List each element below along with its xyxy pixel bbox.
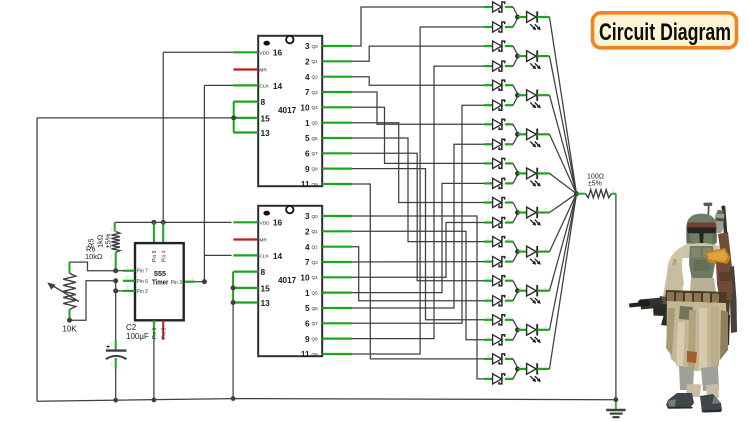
svg-text:Q9: Q9 <box>312 352 319 357</box>
svg-text:2: 2 <box>508 120 510 124</box>
svg-text:1: 1 <box>519 51 521 55</box>
svg-text:2: 2 <box>545 130 547 134</box>
svg-text:Pin 2: Pin 2 <box>137 289 149 295</box>
svg-text:Pin 8: Pin 8 <box>152 250 158 262</box>
svg-text:2: 2 <box>545 286 547 290</box>
svg-text:10kΩ: 10kΩ <box>85 252 103 261</box>
svg-text:2: 2 <box>508 140 510 144</box>
svg-text:6: 6 <box>127 276 129 280</box>
svg-text:16: 16 <box>273 218 283 228</box>
svg-text:1: 1 <box>487 100 489 104</box>
svg-text:5: 5 <box>305 134 310 143</box>
svg-text:6: 6 <box>305 150 310 159</box>
svg-text:+: + <box>106 344 110 351</box>
svg-text:2: 2 <box>612 189 614 193</box>
svg-text:Q2: Q2 <box>312 245 319 250</box>
svg-text:Pin 1: Pin 1 <box>152 327 158 339</box>
svg-text:14: 14 <box>273 81 283 91</box>
svg-text:1: 1 <box>519 286 521 290</box>
svg-text:1: 1 <box>65 264 67 268</box>
svg-text:1: 1 <box>519 247 521 251</box>
svg-text:2: 2 <box>508 41 510 45</box>
svg-text:7: 7 <box>127 266 129 270</box>
svg-text:1: 1 <box>487 218 489 222</box>
svg-text:MR: MR <box>259 238 267 244</box>
svg-text:1: 1 <box>487 41 489 45</box>
svg-text:4: 4 <box>305 243 310 252</box>
svg-text:1: 1 <box>305 119 310 128</box>
svg-text:Q1: Q1 <box>312 229 319 234</box>
svg-text:Q9: Q9 <box>312 182 319 187</box>
svg-text:100Ω: 100Ω <box>587 173 604 180</box>
svg-text:1: 1 <box>111 343 113 347</box>
svg-text:2: 2 <box>508 218 510 222</box>
svg-text:1: 1 <box>487 257 489 261</box>
svg-text:Q5: Q5 <box>312 121 319 126</box>
svg-text:2: 2 <box>508 179 510 183</box>
svg-text:1: 1 <box>519 208 521 212</box>
svg-text:2: 2 <box>508 198 510 202</box>
svg-text:Q6: Q6 <box>312 306 319 311</box>
svg-text:CLK: CLK <box>259 84 269 90</box>
svg-text:9: 9 <box>305 165 310 174</box>
svg-text:1: 1 <box>487 2 489 6</box>
svg-text:2: 2 <box>305 228 310 237</box>
svg-text:Q5: Q5 <box>312 290 319 295</box>
svg-text:15: 15 <box>261 283 271 293</box>
svg-text:14: 14 <box>273 251 283 261</box>
svg-text:Q4: Q4 <box>312 105 319 110</box>
svg-text:2: 2 <box>508 80 510 84</box>
svg-text:4017: 4017 <box>278 106 297 115</box>
svg-text:7: 7 <box>305 258 310 267</box>
svg-text:13: 13 <box>261 128 271 138</box>
svg-text:1: 1 <box>519 90 521 94</box>
svg-text:2: 2 <box>111 362 113 366</box>
svg-text:±5%: ±5% <box>104 233 113 248</box>
svg-text:1: 1 <box>487 159 489 163</box>
svg-text:1: 1 <box>519 169 521 173</box>
svg-text:Pin 5: Pin 5 <box>161 327 167 339</box>
svg-text:Q7: Q7 <box>312 321 319 326</box>
svg-text:10: 10 <box>300 104 310 113</box>
svg-text:1: 1 <box>580 189 582 193</box>
svg-text:Pin 3: Pin 3 <box>171 280 183 286</box>
svg-text:10: 10 <box>300 274 310 283</box>
svg-text:11: 11 <box>301 350 310 359</box>
svg-text:1: 1 <box>487 140 489 144</box>
svg-text:2: 2 <box>508 100 510 104</box>
svg-text:4017: 4017 <box>278 276 297 285</box>
svg-text:10K: 10K <box>62 325 77 334</box>
svg-text:Timer: Timer <box>152 277 169 286</box>
svg-text:2: 2 <box>545 208 547 212</box>
svg-text:VDD: VDD <box>259 51 270 57</box>
svg-text:9: 9 <box>305 335 310 344</box>
svg-text:Q7: Q7 <box>312 151 319 156</box>
svg-text:Q4: Q4 <box>312 275 319 280</box>
svg-text:Pin 7: Pin 7 <box>137 269 149 275</box>
svg-text:Q3: Q3 <box>312 260 319 265</box>
svg-text:Pin 4: Pin 4 <box>161 250 167 262</box>
svg-text:2: 2 <box>508 315 510 319</box>
svg-text:2: 2 <box>545 51 547 55</box>
svg-text:11: 11 <box>301 180 310 189</box>
svg-text:2: 2 <box>508 335 510 339</box>
svg-text:2: 2 <box>508 159 510 163</box>
svg-text:2: 2 <box>508 237 510 241</box>
svg-text:2: 2 <box>65 315 67 319</box>
svg-text:1: 1 <box>519 130 521 134</box>
svg-text:1: 1 <box>487 374 489 378</box>
svg-text:1: 1 <box>487 276 489 280</box>
svg-text:VDD: VDD <box>259 221 270 227</box>
svg-text:6: 6 <box>305 320 310 329</box>
svg-text:CLK: CLK <box>259 254 269 260</box>
svg-text:Q0: Q0 <box>312 44 319 49</box>
svg-text:Circuit Diagram: Circuit Diagram <box>599 19 731 46</box>
svg-text:2: 2 <box>508 61 510 65</box>
svg-text:2: 2 <box>111 255 113 259</box>
svg-text:MR: MR <box>259 68 267 74</box>
svg-text:100µF: 100µF <box>126 332 149 341</box>
svg-text:5: 5 <box>305 304 310 313</box>
svg-text:1: 1 <box>519 364 521 368</box>
svg-text:1: 1 <box>487 237 489 241</box>
svg-text:C2: C2 <box>126 323 137 332</box>
svg-text:2: 2 <box>127 286 129 290</box>
svg-text:1: 1 <box>487 198 489 202</box>
svg-text:2: 2 <box>545 12 547 16</box>
svg-text:8: 8 <box>261 97 266 107</box>
svg-text:1: 1 <box>487 315 489 319</box>
svg-text:1: 1 <box>487 22 489 26</box>
svg-text:1: 1 <box>111 228 113 232</box>
svg-text:1: 1 <box>487 335 489 339</box>
svg-text:Q6: Q6 <box>312 136 319 141</box>
svg-text:15: 15 <box>261 113 271 123</box>
svg-text:Q8: Q8 <box>312 336 319 341</box>
svg-text:16: 16 <box>273 48 283 58</box>
svg-text:Pin 6: Pin 6 <box>137 279 149 285</box>
svg-text:1: 1 <box>519 12 521 16</box>
svg-text:Q3: Q3 <box>312 90 319 95</box>
svg-text:2: 2 <box>508 296 510 300</box>
svg-text:1: 1 <box>487 296 489 300</box>
svg-text:1: 1 <box>487 80 489 84</box>
svg-text:2: 2 <box>508 22 510 26</box>
svg-text:2: 2 <box>545 169 547 173</box>
svg-text:1: 1 <box>305 289 310 298</box>
svg-text:2: 2 <box>545 90 547 94</box>
svg-text:Q8: Q8 <box>312 166 319 171</box>
svg-text:Q2: Q2 <box>312 75 319 80</box>
svg-text:3: 3 <box>305 212 310 221</box>
svg-text:2: 2 <box>508 276 510 280</box>
svg-text:R5: R5 <box>87 238 96 248</box>
svg-text:2: 2 <box>545 325 547 329</box>
svg-text:2: 2 <box>305 58 310 67</box>
svg-text:4: 4 <box>305 73 310 82</box>
svg-text:1: 1 <box>611 404 613 408</box>
svg-text:1: 1 <box>487 120 489 124</box>
svg-text:Q1: Q1 <box>312 59 319 64</box>
svg-text:13: 13 <box>261 298 271 308</box>
svg-text:8: 8 <box>261 267 266 277</box>
svg-text:2: 2 <box>508 354 510 358</box>
svg-text:2: 2 <box>508 257 510 261</box>
svg-text:2: 2 <box>508 374 510 378</box>
svg-text:3: 3 <box>305 42 310 51</box>
svg-text:1: 1 <box>487 354 489 358</box>
svg-text:7: 7 <box>305 88 310 97</box>
svg-text:1: 1 <box>487 179 489 183</box>
svg-text:3: 3 <box>192 277 194 281</box>
svg-text:2: 2 <box>545 247 547 251</box>
svg-text:1: 1 <box>487 61 489 65</box>
svg-text:2: 2 <box>545 364 547 368</box>
svg-text:±5%: ±5% <box>588 181 602 188</box>
svg-text:2: 2 <box>508 2 510 6</box>
svg-text:Q0: Q0 <box>312 214 319 219</box>
svg-text:1: 1 <box>519 325 521 329</box>
